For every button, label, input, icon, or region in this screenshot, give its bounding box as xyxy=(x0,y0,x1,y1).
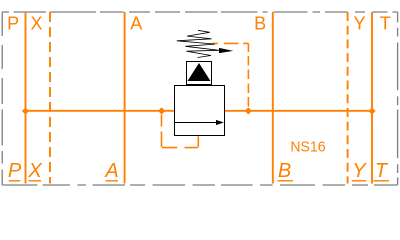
svg-text:T: T xyxy=(380,14,391,34)
svg-text:Y: Y xyxy=(352,160,367,182)
svg-text:P: P xyxy=(7,14,19,34)
svg-text:X: X xyxy=(27,160,42,182)
svg-text:X: X xyxy=(30,14,42,34)
svg-text:B: B xyxy=(254,14,266,34)
svg-text:P: P xyxy=(8,160,22,182)
svg-text:A: A xyxy=(104,160,118,182)
svg-text:T: T xyxy=(375,160,389,182)
svg-text:B: B xyxy=(278,160,291,182)
svg-text:A: A xyxy=(130,14,142,34)
svg-text:Y: Y xyxy=(353,14,365,34)
svg-text:NS16: NS16 xyxy=(290,139,325,156)
